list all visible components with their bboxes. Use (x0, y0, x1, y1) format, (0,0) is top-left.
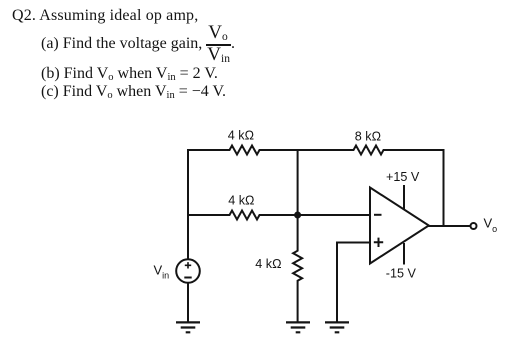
svg-text:4 kΩ: 4 kΩ (228, 194, 254, 208)
svg-text:4 kΩ: 4 kΩ (255, 257, 281, 271)
svg-text:4 kΩ: 4 kΩ (228, 129, 254, 143)
svg-text:Vo: Vo (484, 216, 498, 235)
svg-text:Vin: Vin (154, 263, 170, 281)
svg-text:8 kΩ: 8 kΩ (355, 129, 381, 143)
svg-text:-15 V: -15 V (386, 267, 417, 281)
svg-text:+15 V: +15 V (386, 170, 420, 184)
